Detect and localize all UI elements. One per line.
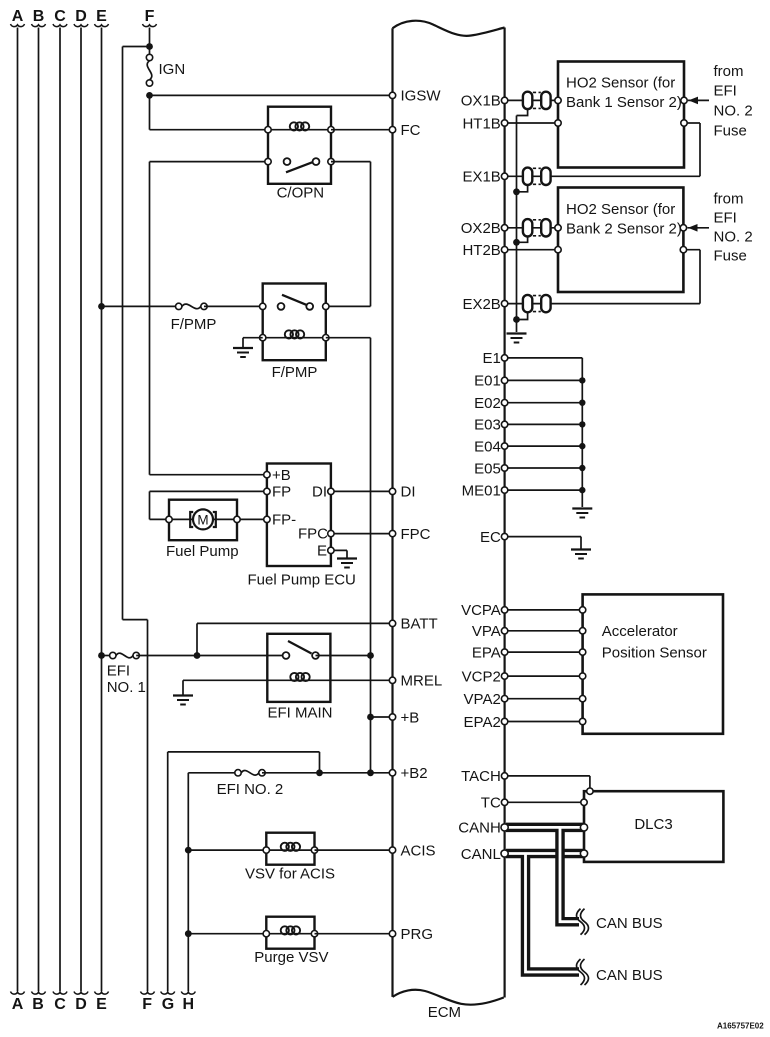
wire EX2B (505, 250, 700, 304)
pin ECM E05 (474, 460, 508, 477)
coil VSV for ACIS (263, 843, 318, 854)
svg-text:F: F (145, 8, 155, 25)
pins HO2 bank2 (555, 225, 687, 253)
svg-text:F/PMP: F/PMP (272, 364, 318, 381)
label CAN BUS lower (596, 967, 663, 984)
svg-text:HO2 Sensor (for: HO2 Sensor (for (566, 75, 675, 92)
svg-text:E: E (96, 8, 107, 25)
svg-text:C: C (54, 996, 66, 1013)
wire TC (505, 801, 584, 803)
relay C/OPN box (268, 107, 331, 184)
pin ECM DI (389, 484, 415, 501)
ground F/PMP coil (233, 348, 253, 357)
ground HO2 shields (507, 334, 527, 343)
svg-text:VSV for ACIS: VSV for ACIS (245, 866, 335, 883)
pin ECM E01 (474, 373, 508, 390)
label Fuel Pump ECU (248, 572, 356, 589)
svg-text:E04: E04 (474, 438, 501, 455)
pin ECM IGSW (389, 88, 441, 105)
pin ECM HT1B (462, 115, 507, 132)
wire C/OPN switch right to F/PMP switch (326, 162, 371, 307)
label Accelerator Position Sensor (602, 623, 707, 662)
pin ECM VPA2 (464, 691, 508, 708)
wire shield EX2B (517, 312, 528, 319)
label IGN (159, 61, 186, 78)
box Fuel Pump ECU (267, 464, 331, 567)
pin ECM E1 (482, 350, 507, 367)
pin ECM E04 (474, 438, 508, 455)
pin ECM VPA (472, 623, 508, 640)
svg-text:F/PMP: F/PMP (171, 316, 217, 333)
svg-text:E1: E1 (482, 350, 500, 367)
svg-text:Fuse: Fuse (714, 123, 747, 140)
wire shield OX1B (517, 109, 528, 115)
wire BATT branch (197, 623, 393, 655)
label ECM (428, 1004, 461, 1021)
svg-text:CAN BUS: CAN BUS (596, 915, 663, 932)
svg-text:DLC3: DLC3 (634, 816, 672, 833)
box HO2 sensor bank1 (558, 62, 684, 168)
svg-text:B: B (32, 996, 44, 1013)
wire VPA (505, 628, 586, 634)
motor M fuel pump (190, 509, 216, 529)
wire EPA2 (505, 718, 586, 724)
wire HT2B (505, 249, 558, 251)
wire IGN down to C/OPN coil (150, 95, 269, 129)
svg-text:EC: EC (480, 529, 501, 546)
wire F/PMP fuse to relay (204, 305, 263, 307)
wire terminal G loop (161, 752, 320, 1013)
label DLC3 (634, 816, 672, 833)
pin ECM TACH (461, 768, 508, 785)
wire shield OX2B (517, 237, 528, 243)
pin ECM TC (481, 795, 508, 812)
node +B junction (367, 714, 374, 721)
wire E01 (505, 377, 586, 383)
svg-text:EX1B: EX1B (462, 169, 500, 186)
svg-text:HT2B: HT2B (462, 242, 500, 259)
box Fuel Pump (169, 500, 237, 541)
svg-text:VCPA: VCPA (461, 602, 501, 619)
label EFI NO. 1 (107, 663, 146, 697)
wire E-line to F/PMP fuse (102, 305, 179, 307)
wire fuel pump motor row (169, 518, 237, 520)
label EFI NO. 2 (217, 781, 284, 798)
label F/PMP fuse (171, 316, 217, 333)
svg-text:G: G (162, 996, 174, 1013)
node +B2 to G loop (316, 769, 323, 776)
ground Fuel Pump ECU E (337, 559, 357, 568)
pin ECM PRG (389, 926, 433, 943)
label Fuel Pump (166, 543, 239, 560)
wire EC (505, 537, 581, 549)
box VSV for ACIS (266, 833, 314, 865)
svg-text:ACIS: ACIS (401, 842, 436, 859)
wire HT1B (505, 122, 558, 124)
wire IGN branch to left riser (123, 46, 150, 48)
wire left riser (F feed down) (123, 47, 155, 1014)
pins HO2 bank1 (555, 97, 687, 126)
svg-text:Fuel Pump: Fuel Pump (166, 543, 239, 560)
svg-text:Bank 2 Sensor 2): Bank 2 Sensor 2) (566, 220, 682, 237)
label drawing number (717, 1022, 764, 1031)
pin ECM EX2B (462, 296, 507, 313)
relay F/PMP coil (260, 330, 329, 341)
node EFI MAIN out (367, 652, 374, 659)
bus CANL (506, 854, 584, 973)
node H to Purge VSV (185, 930, 192, 937)
node IGN output (146, 92, 153, 99)
wire terminal D (battery harness) (74, 8, 88, 1013)
relay EFI MAIN coil (290, 673, 309, 681)
svg-text:CAN BUS: CAN BUS (596, 967, 663, 984)
wire shield bus (516, 116, 518, 333)
svg-text:A: A (12, 996, 24, 1013)
break CAN BUS lower (577, 959, 589, 985)
svg-text:A165757E02: A165757E02 (717, 1022, 764, 1031)
wire TACH (505, 776, 590, 791)
node shield OX2B (513, 239, 520, 246)
svg-text:H: H (183, 996, 195, 1013)
svg-text:D: D (75, 996, 87, 1013)
pins Fuel Pump ECU left (264, 472, 270, 523)
svg-text:NO. 2: NO. 2 (714, 103, 753, 120)
node shield EX2B (513, 316, 520, 323)
svg-text:CANL: CANL (461, 846, 501, 863)
pin ECM MREL (389, 673, 442, 690)
pin ECM VCP2 (462, 668, 508, 685)
node shield EX1B (513, 188, 520, 195)
svg-text:from: from (714, 191, 744, 208)
svg-text:F: F (142, 996, 152, 1013)
pin ECM CANL (461, 846, 508, 863)
relay F/PMP switch (260, 295, 329, 310)
pin ECM +B2 (389, 765, 427, 782)
label HO2 sensor bank1 (566, 75, 682, 111)
wire FP- link (237, 518, 267, 520)
pin ECU FPC + wire to ECM FPC (298, 526, 393, 543)
wire terminal E (battery harness) (95, 8, 109, 1013)
pin ECM FC (389, 122, 420, 139)
label F/PMP relay (272, 364, 318, 381)
pin ECU E + ground wire (317, 542, 347, 559)
pin ECM HT2B (462, 242, 507, 259)
svg-text:EFI NO. 2: EFI NO. 2 (217, 781, 284, 798)
svg-text:PRG: PRG (401, 926, 434, 943)
pin ECM EC (480, 529, 508, 546)
svg-text:+B2: +B2 (401, 765, 428, 782)
wire +B2 row (188, 772, 238, 774)
svg-text:EFI MAIN: EFI MAIN (268, 705, 333, 722)
labels Fuel Pump ECU left (272, 467, 296, 529)
wire shield EX1B (517, 185, 528, 192)
label VSV for ACIS (245, 866, 335, 883)
label C/OPN (277, 185, 325, 202)
wire OX2B (505, 227, 558, 229)
wire EX1B (505, 123, 700, 176)
node IGN junction (146, 43, 153, 50)
ECM box (393, 21, 505, 1005)
wire FP loop (150, 491, 267, 519)
svg-text:EX2B: EX2B (462, 296, 500, 313)
svg-text:DI: DI (401, 484, 416, 501)
ground EFI MAIN coil (173, 696, 193, 705)
svg-text:Accelerator: Accelerator (602, 623, 678, 640)
wire +B (371, 716, 393, 718)
svg-text:HT1B: HT1B (462, 115, 500, 132)
svg-text:Position Sensor: Position Sensor (602, 645, 707, 662)
wire terminal A (battery harness) (11, 8, 25, 1013)
svg-text:C/OPN: C/OPN (277, 185, 325, 202)
wire VCP2 (505, 673, 586, 679)
node H to VSV ACIS (185, 847, 192, 854)
fuse EFI NO. 2 (235, 770, 265, 776)
label EFI MAIN (268, 705, 333, 722)
svg-text:EPA2: EPA2 (464, 714, 501, 731)
svg-text:FP: FP (272, 484, 291, 501)
wire VSV ACIS to ECM ACIS (315, 849, 393, 851)
svg-text:B: B (33, 8, 45, 25)
svg-text:E: E (317, 542, 327, 559)
wire C/OPN switch left down to Fuel Pump ECU +B (150, 162, 269, 475)
wire terminal C (battery harness) (53, 8, 67, 1013)
svg-text:E03: E03 (474, 417, 501, 434)
svg-text:TC: TC (481, 795, 501, 812)
relay C/OPN coil (268, 122, 331, 130)
svg-text:Fuse: Fuse (714, 248, 747, 265)
svg-text:ME01: ME01 (462, 482, 501, 499)
svg-text:IGN: IGN (159, 61, 186, 78)
wire E02 (505, 400, 586, 406)
wire EFI NO.1 feed (102, 655, 113, 657)
wire EPA (505, 649, 586, 655)
label HO2 sensor bank2 (566, 201, 682, 237)
svg-text:FPC: FPC (401, 526, 431, 543)
svg-text:DI: DI (312, 484, 327, 501)
wire H to VSV ACIS (188, 849, 266, 851)
wire fuse to EFI MAIN switch (136, 655, 286, 657)
wire E05 (505, 465, 586, 471)
svg-text:from: from (714, 63, 744, 80)
coil Purge VSV (263, 926, 318, 937)
relay C/OPN coil pins (265, 127, 334, 133)
label Purge VSV (254, 949, 328, 966)
svg-text:C: C (54, 8, 66, 25)
svg-text:CANH: CANH (458, 820, 501, 837)
svg-text:OX2B: OX2B (461, 220, 501, 237)
node E-line to F/PMP fuse (98, 303, 105, 310)
svg-text:IGSW: IGSW (401, 88, 442, 105)
svg-text:EPA: EPA (472, 644, 501, 661)
wire terminal H riser (181, 773, 195, 1013)
fuse EFI NO. 1 (110, 652, 140, 658)
svg-text:+B: +B (401, 709, 420, 726)
svg-text:Purge VSV: Purge VSV (254, 949, 328, 966)
fuse F/PMP (176, 303, 208, 309)
break CAN BUS upper (577, 909, 589, 935)
wire OX1B (505, 99, 558, 101)
svg-text:FC: FC (401, 122, 421, 139)
pin ECM FPC (389, 526, 430, 543)
svg-text:E: E (96, 996, 107, 1013)
node BATT branch (194, 652, 201, 659)
wire terminal B (battery harness) (32, 8, 46, 1013)
svg-text:M: M (197, 512, 208, 527)
wire ME01 (505, 487, 586, 493)
relay C/OPN switch (265, 158, 334, 172)
svg-text:VPA: VPA (472, 623, 501, 640)
pin ECM OX2B (461, 220, 508, 237)
wire terminal F (top, IGN feed) (143, 8, 157, 55)
connector EX2B (523, 295, 551, 312)
connector OX2B (523, 219, 551, 236)
wire E04 (505, 443, 586, 449)
node +B2 to +B riser (367, 769, 374, 776)
svg-text:HO2 Sensor (for: HO2 Sensor (for (566, 201, 675, 218)
pin ECM EX1B (462, 169, 507, 186)
pin ECM EPA2 (464, 714, 508, 731)
svg-text:NO. 2: NO. 2 (714, 229, 753, 246)
svg-text:VCP2: VCP2 (462, 668, 501, 685)
pins fuel pump (166, 516, 240, 522)
svg-text:EFI: EFI (714, 210, 737, 227)
pin ECM ACIS (389, 842, 435, 859)
bus CANH (506, 827, 584, 921)
label CAN BUS upper (596, 915, 663, 932)
pin ECM ME01 (462, 482, 508, 499)
svg-text:FP-: FP- (272, 512, 296, 529)
box DLC3 (584, 791, 723, 862)
wire Purge VSV to ECM PRG (315, 933, 393, 935)
pins DLC3 (580, 788, 593, 857)
ground EC (571, 550, 591, 559)
ground E1 bus (572, 509, 592, 518)
pin ECU DI + wire to ECM DI (312, 484, 393, 501)
box Accelerator Position Sensor (583, 594, 723, 733)
svg-text:Fuel Pump ECU: Fuel Pump ECU (248, 572, 356, 589)
relay F/PMP box (263, 284, 326, 361)
pin ECM +B (389, 709, 419, 726)
svg-text:EFI: EFI (107, 663, 130, 680)
wire fuse EFI NO.2 to +B2 pin (262, 772, 393, 774)
box HO2 sensor bank2 (558, 188, 683, 293)
wire EFI MAIN switch out (316, 655, 371, 657)
svg-text:+B: +B (272, 467, 291, 484)
svg-text:A: A (12, 8, 24, 25)
wire E03 (505, 421, 586, 427)
svg-text:EFI: EFI (714, 83, 737, 100)
arrow from EFI NO.2 fuse (bank1) (688, 97, 709, 105)
svg-text:MREL: MREL (401, 673, 443, 690)
pin ECM E03 (474, 417, 508, 434)
svg-text:ECM: ECM (428, 1004, 461, 1021)
wire F/PMP coil to ground (243, 338, 263, 347)
relay EFI MAIN box (267, 634, 330, 702)
wire H to Purge VSV (188, 933, 266, 935)
label from EFI NO.2 fuse (bank2) (714, 191, 753, 265)
svg-text:NO. 1: NO. 1 (107, 679, 146, 696)
fuse IGN (146, 54, 152, 86)
arrow from EFI NO.2 fuse (bank2) (688, 224, 710, 232)
svg-text:D: D (75, 8, 87, 25)
wire VPA2 (505, 696, 586, 702)
wire EFI MAIN coil row (183, 679, 393, 681)
svg-text:FPC: FPC (298, 526, 328, 543)
node E-line to EFI NO. 1 fuse (98, 652, 105, 659)
svg-text:E01: E01 (474, 373, 501, 390)
pin ECM BATT (389, 616, 437, 633)
svg-text:OX1B: OX1B (461, 93, 501, 110)
wire EFI MAIN coil ground stub (182, 680, 184, 695)
svg-text:E02: E02 (474, 395, 501, 412)
wire IGN to IGSW (150, 94, 393, 96)
svg-text:BATT: BATT (401, 616, 438, 633)
pin ECM VCPA (461, 602, 508, 619)
svg-text:Bank 1 Sensor 2): Bank 1 Sensor 2) (566, 94, 682, 111)
box Purge VSV (266, 917, 314, 949)
wire C/OPN coil to FC (331, 129, 393, 131)
connector OX1B (523, 92, 551, 109)
wire E1 bus (505, 358, 583, 507)
pin ECM OX1B (461, 93, 508, 110)
wire VCPA (505, 607, 586, 613)
svg-text:VPA2: VPA2 (464, 691, 501, 708)
connector EX1B (523, 168, 551, 185)
wire F/PMP coil right riser (to +B node) (326, 338, 371, 773)
relay EFI MAIN switch (283, 641, 319, 659)
pin ECM E02 (474, 395, 508, 412)
svg-text:E05: E05 (474, 460, 501, 477)
svg-text:TACH: TACH (461, 768, 501, 785)
pin ECM CANH (458, 820, 508, 837)
label from EFI NO.2 fuse (bank1) (714, 63, 753, 140)
pin ECM EPA (472, 644, 508, 661)
